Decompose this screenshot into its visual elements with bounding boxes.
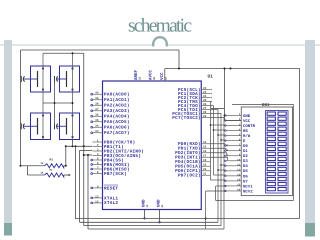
svg-text:16: 16 [237, 189, 241, 192]
svg-text:PB7(SCK): PB7(SCK) [104, 171, 127, 177]
svg-text:M1: M1 [50, 159, 54, 162]
svg-text:24: 24 [203, 95, 207, 98]
svg-text:25: 25 [203, 99, 207, 102]
svg-text:GND: GND [243, 114, 251, 119]
svg-text:38: 38 [95, 103, 99, 106]
svg-text:PA1(ACD1): PA1(ACD1) [104, 97, 130, 103]
svg-text:28: 28 [203, 111, 207, 114]
svg-text:12: 12 [95, 200, 99, 203]
svg-text:10: 10 [237, 158, 241, 161]
svg-text:U1: U1 [208, 74, 214, 79]
svg-text:PA7(ACD7): PA7(ACD7) [104, 130, 130, 136]
svg-text:DS1: DS1 [262, 103, 270, 108]
svg-text:23: 23 [203, 91, 207, 94]
svg-text:29: 29 [203, 115, 207, 118]
svg-text:D4: D4 [243, 164, 248, 169]
svg-text:PA2(ACD2): PA2(ACD2) [104, 103, 130, 109]
svg-text:R2: R2 [50, 169, 54, 172]
svg-text:D0: D0 [243, 144, 248, 149]
svg-text:26: 26 [203, 103, 207, 106]
svg-text:31: 31 [161, 204, 164, 208]
svg-text:21: 21 [203, 173, 207, 176]
svg-text:D5: D5 [243, 169, 248, 174]
svg-text:18: 18 [203, 159, 207, 162]
svg-text:22: 22 [203, 87, 207, 90]
svg-text:33: 33 [95, 130, 99, 133]
svg-text:19: 19 [203, 164, 207, 167]
svg-text:schematic: schematic [128, 16, 192, 37]
svg-text:RS: RS [243, 129, 248, 134]
svg-text:34: 34 [95, 125, 99, 128]
svg-text:15: 15 [203, 146, 207, 149]
svg-text:XTAL2: XTAL2 [104, 201, 118, 206]
svg-text:D2: D2 [243, 154, 248, 159]
svg-text:39: 39 [95, 97, 99, 100]
svg-text:R/W: R/W [243, 134, 251, 139]
svg-text:11: 11 [146, 204, 149, 208]
svg-text:35: 35 [95, 119, 99, 122]
svg-text:PA0(ACD0): PA0(ACD0) [104, 92, 130, 98]
svg-text:D1: D1 [243, 149, 248, 154]
svg-text:17: 17 [203, 155, 207, 158]
svg-text:PA6(ACD6): PA6(ACD6) [104, 125, 130, 131]
svg-text:1k: 1k [40, 162, 44, 165]
svg-text:PD7(OC2): PD7(OC2) [178, 173, 201, 179]
svg-text:13: 13 [95, 195, 99, 198]
svg-text:PA3(ACD3): PA3(ACD3) [104, 108, 130, 114]
svg-text:40: 40 [95, 92, 99, 95]
svg-text:37: 37 [95, 108, 99, 111]
svg-text:D7: D7 [243, 179, 248, 184]
svg-text:30: 30 [153, 76, 156, 80]
svg-text:PA4(ACD4): PA4(ACD4) [104, 114, 130, 120]
svg-text:VCC: VCC [243, 119, 251, 124]
svg-text:16: 16 [203, 150, 207, 153]
svg-text:NC#1: NC#1 [243, 184, 253, 189]
svg-text:CONTR: CONTR [243, 124, 256, 129]
svg-text:12: 12 [237, 169, 241, 172]
svg-text:32: 32 [139, 76, 142, 80]
svg-text:36: 36 [95, 114, 99, 117]
svg-text:1k: 1k [40, 172, 44, 175]
svg-text:PC7(TOSC2): PC7(TOSC2) [172, 115, 201, 121]
svg-text:13: 13 [237, 174, 241, 177]
svg-text:15: 15 [237, 184, 241, 187]
svg-text:14: 14 [203, 141, 207, 144]
svg-text:D3: D3 [243, 159, 248, 164]
svg-text:PA5(ACD5): PA5(ACD5) [104, 119, 130, 125]
svg-text:D6: D6 [243, 174, 248, 179]
svg-text:11: 11 [237, 164, 241, 167]
svg-text:20: 20 [203, 168, 207, 171]
svg-text:RESET: RESET [104, 186, 118, 191]
svg-text:NC#2: NC#2 [243, 189, 253, 194]
svg-text:27: 27 [203, 107, 207, 110]
svg-text:14: 14 [237, 179, 241, 182]
